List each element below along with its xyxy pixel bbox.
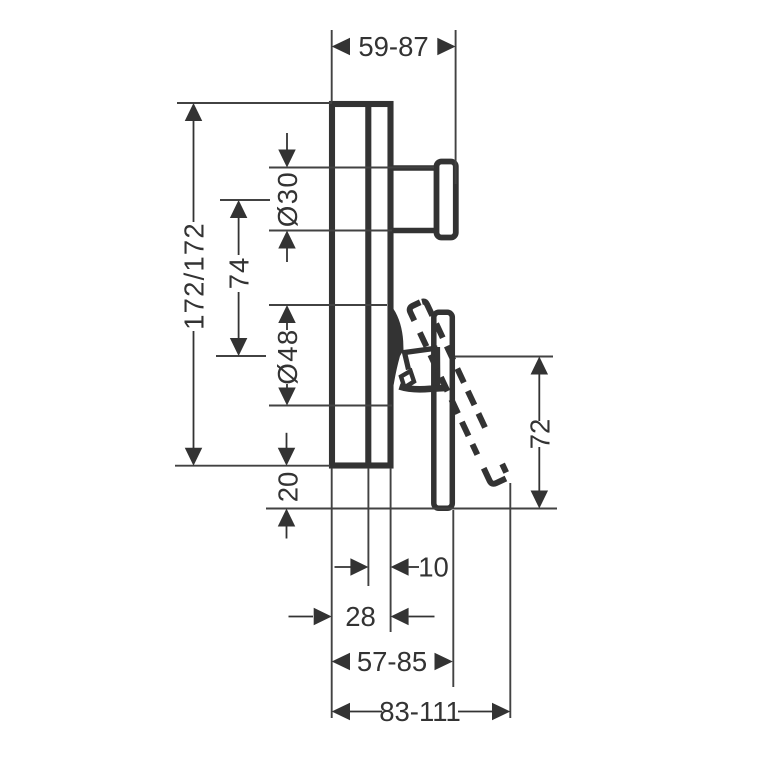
svg-text:10: 10 — [418, 552, 449, 583]
dashed lever top end hook — [408, 302, 426, 320]
dimension 57-85 — [332, 646, 453, 677]
thin extension lines — [175, 30, 557, 718]
dimension 59-87 — [332, 31, 456, 62]
v-extension divider below — [367, 468, 369, 586]
dimension 28 — [289, 601, 435, 632]
svg-text:57-85: 57-85 — [357, 646, 427, 677]
thermostat stem bottom line — [391, 228, 437, 234]
dimension Ø48 (inside arrows) — [272, 305, 303, 406]
dimension 10 — [335, 552, 449, 583]
svg-text:83-111: 83-111 — [379, 696, 461, 727]
v-extension plate left below — [331, 468, 333, 718]
cartridge trapezoid body — [405, 347, 438, 392]
wall plate divider line — [365, 104, 371, 466]
wall plate outer rectangle — [332, 104, 391, 466]
dashed lever bottom end hook — [484, 462, 506, 486]
svg-text:72: 72 — [524, 419, 555, 450]
tick 74 top — [220, 199, 270, 201]
extension line Ø48 bottom — [269, 405, 392, 407]
dashed lever top-right corner dash — [422, 300, 432, 317]
cartridge bottom arm — [400, 387, 447, 390]
lever handle (dashed rotated position) — [408, 300, 508, 485]
extension line stem top (Ø30) — [269, 167, 434, 169]
thermostat stem top line — [391, 165, 437, 171]
v-extension dashed tip below — [509, 483, 511, 718]
dimension 20 (outside arrows) — [273, 433, 304, 539]
extension line pivot (72 top) — [455, 356, 553, 358]
tick 74 bottom — [216, 355, 266, 357]
dashed lever bottom-right corner dash — [502, 464, 506, 473]
v-extension lever right below — [452, 510, 454, 687]
svg-text:172/172: 172/172 — [179, 222, 210, 330]
extension line stem bottom (Ø30) — [269, 230, 392, 232]
dashed lever right side dashes — [436, 324, 489, 436]
svg-text:20: 20 — [273, 472, 304, 503]
cartridge lower tab — [401, 371, 414, 388]
lever handle (solid position) — [434, 312, 453, 508]
v-extension 59-87 left — [331, 30, 333, 102]
dimension Ø30 (outside arrows) — [272, 133, 303, 262]
dimension 172/172 — [179, 103, 210, 466]
extension line lever bottom — [266, 508, 557, 510]
v-extension plate right below — [390, 468, 392, 632]
svg-text:59-87: 59-87 — [358, 31, 428, 62]
extension line plate bottom — [175, 465, 330, 467]
cartridge bulge on plate face — [388, 308, 404, 393]
svg-text:Ø48: Ø48 — [272, 328, 303, 384]
dimension 74 — [224, 200, 255, 356]
dashed lever left side dashes — [420, 332, 477, 454]
dimension 83-111 — [332, 696, 511, 727]
svg-text:Ø30: Ø30 — [272, 171, 303, 227]
svg-text:28: 28 — [345, 601, 376, 632]
v-extension 59-87 right — [455, 30, 457, 184]
thermostat knob cap — [437, 162, 456, 238]
svg-text:74: 74 — [224, 257, 255, 290]
dimension 72 (inside arrows) — [524, 357, 555, 509]
extension line top-left (172 top) — [177, 102, 332, 104]
extension line Ø48 top — [269, 304, 387, 306]
